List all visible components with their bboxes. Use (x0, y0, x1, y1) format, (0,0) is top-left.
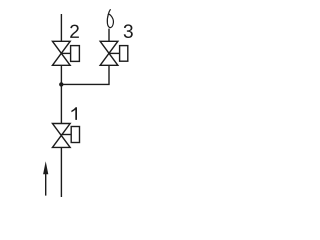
wire: main line from valve V2 down to valve V1 (60, 65, 62, 123)
flow direction arrow (pointing up) (43, 161, 48, 195)
label 3 (124, 24, 133, 38)
label 2 (70, 25, 79, 38)
wire: below valve V3 down to branch corner (61, 65, 109, 84)
wire: from flame to valve V3 (108, 29, 110, 42)
valve V2 (bowtie symbol) (52, 41, 70, 65)
flame symbol (flare outlet) (107, 10, 113, 28)
actuator rectangle of valve V3 (120, 46, 128, 62)
junction node (branch tee) (59, 82, 63, 86)
valve V1 (bowtie symbol) (52, 124, 70, 148)
wire: stem from valve V2 to actuator (61, 52, 70, 54)
wire: stem from valve V1 to actuator (61, 134, 71, 136)
actuator rectangle of valve V2 (71, 46, 80, 62)
actuator rectangle of valve V1 (71, 127, 79, 143)
wire: outlet line below valve V1 (60, 147, 62, 197)
wire: inlet line above valve V2 (60, 14, 62, 41)
valve V3 (bowtie symbol) (100, 41, 118, 65)
label 1 (71, 107, 77, 120)
wire: stem from valve V3 to actuator (109, 52, 120, 54)
